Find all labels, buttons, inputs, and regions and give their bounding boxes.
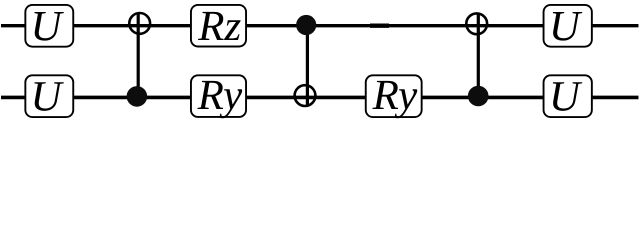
gate U2 box (bottom-left)	[25, 75, 73, 117]
wire q1 (bottom qubit wire)	[1, 96, 639, 100]
gate Ry1 label	[197, 81, 223, 109]
CNOT1 target oplus (on q0)	[129, 13, 150, 34]
gate U4 box (bottom-right)	[544, 75, 592, 117]
gate Ry2 box	[366, 75, 422, 117]
gate U3 label	[553, 12, 582, 41]
gate Ry2 label	[372, 81, 398, 109]
gate U3 box (top-right)	[544, 5, 592, 47]
gate Rz label	[198, 12, 224, 40]
wire q0 (top qubit wire)	[1, 24, 639, 27]
wire CNOT2 vertical control line	[306, 25, 309, 106]
gate U4 label	[553, 82, 582, 111]
wire CNOT3 vertical control line	[477, 13, 480, 96]
gate Ry1 box	[191, 75, 246, 117]
gate U1 label	[34, 12, 63, 41]
CNOT3 target oplus (on q0)	[466, 13, 487, 34]
gate U2 label	[34, 82, 63, 111]
CNOT3 control dot (on q1)	[468, 86, 489, 107]
gate U1 box (top-left)	[25, 5, 73, 47]
wire CNOT1 vertical control line	[137, 13, 140, 97]
CNOT2 target oplus (on q1)	[295, 85, 316, 106]
wire overlap segment on q0 (thicker dash)	[370, 24, 389, 28]
CNOT2 control dot (on q0)	[296, 15, 316, 35]
CNOT1 control dot (on q1)	[127, 86, 148, 107]
gate Rz box	[191, 5, 246, 47]
